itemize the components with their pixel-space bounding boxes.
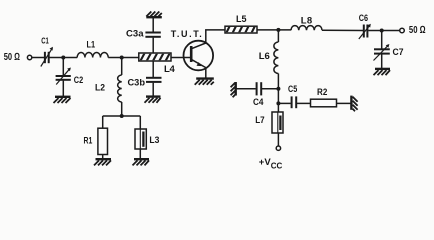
capacitor C4 xyxy=(257,82,262,95)
wire input to C1 xyxy=(32,57,44,59)
svg-text:C3b: C3b xyxy=(128,78,146,89)
wire collector up and right to L5 xyxy=(206,30,225,43)
ground (below C7) xyxy=(374,69,391,75)
inductor L6 (vertical) xyxy=(274,42,279,74)
ground (emitter) xyxy=(195,79,214,85)
svg-text:C3a: C3a xyxy=(126,29,144,40)
wire C1 to node A xyxy=(50,57,78,59)
wire C6 to output terminal xyxy=(368,30,400,32)
ground (below R1) xyxy=(94,159,111,165)
ground (right of R2) xyxy=(351,96,357,112)
wire node A down to C2 xyxy=(62,58,64,76)
wire C3b to ground xyxy=(152,83,154,96)
wire L4 to transistor base xyxy=(171,57,190,59)
capacitor C7 (variable) xyxy=(374,44,390,61)
wire ground to C4 xyxy=(236,88,256,90)
wire L1 to L4 xyxy=(108,57,139,59)
wire R1 to ground xyxy=(102,155,104,159)
ground (below C2) xyxy=(54,97,71,103)
wire emitter to ground xyxy=(205,68,207,78)
Vcc terminal xyxy=(276,146,280,150)
capacitor C5 xyxy=(292,96,297,108)
node A (C2 junction) xyxy=(61,56,65,60)
inductor L3 (slug-core choke) xyxy=(135,129,146,149)
ground (below C3b) xyxy=(145,97,161,103)
svg-text:L3: L3 xyxy=(149,135,159,146)
node E (C6/C7 junction) xyxy=(380,29,384,33)
wire C4 to node F xyxy=(262,88,278,90)
wire node E down to C7 xyxy=(381,31,383,49)
svg-text:+VCC: +VCC xyxy=(259,157,283,171)
ground (below L3) xyxy=(133,159,150,165)
wire L6 to node F xyxy=(277,74,279,104)
svg-text:L4: L4 xyxy=(164,64,176,75)
capacitor C3a xyxy=(145,33,160,37)
wire node G to C5 xyxy=(278,102,290,104)
svg-text:L5: L5 xyxy=(236,14,247,24)
wire L3 to ground xyxy=(139,149,141,159)
svg-text:C6: C6 xyxy=(359,13,368,23)
svg-text:T.U.T.: T.U.T. xyxy=(171,29,202,39)
inductor L8 xyxy=(291,26,322,31)
svg-text:50 Ω: 50 Ω xyxy=(4,51,20,63)
resistor R1 xyxy=(98,128,108,154)
wire node B down to L2 xyxy=(121,58,123,76)
wire C5 to R2 xyxy=(297,102,311,104)
capacitor C1 (variable) xyxy=(41,47,53,67)
svg-text:C7: C7 xyxy=(393,47,404,58)
wire L8 to C6 xyxy=(322,29,363,31)
wire bottom rail xyxy=(103,115,141,117)
wire C2 to ground xyxy=(62,81,64,97)
wire L7 to Vcc terminal xyxy=(277,133,279,146)
output terminal (50 ohm load) xyxy=(400,28,405,33)
wire R2 to ground xyxy=(337,102,351,104)
svg-text:C2: C2 xyxy=(74,75,83,86)
node F (C4 junction) xyxy=(276,87,280,91)
ground (left of C4) xyxy=(231,82,236,97)
svg-text:R2: R2 xyxy=(317,87,327,97)
inductor L7 (slug-core choke) xyxy=(272,112,283,133)
wire C7 to ground xyxy=(381,54,383,68)
input terminal (50 ohm source) xyxy=(27,55,31,59)
svg-text:L1: L1 xyxy=(87,40,96,50)
wire C3a to L4 top xyxy=(152,38,154,53)
node C (R1/L3 junction) xyxy=(120,114,124,118)
wire node G down to L7 xyxy=(277,103,279,112)
svg-text:L2: L2 xyxy=(95,82,105,93)
wire L4 bottom to C3b xyxy=(152,61,154,77)
inductor L1 xyxy=(77,52,108,57)
node G (C5/L7 junction) xyxy=(276,101,280,105)
svg-text:L6: L6 xyxy=(259,51,270,62)
svg-text:50 Ω: 50 Ω xyxy=(409,24,426,36)
svg-text:R1: R1 xyxy=(84,135,93,145)
capacitor C2 (variable) xyxy=(56,68,71,85)
node B (L1/L4/L2 junction) xyxy=(120,56,124,60)
capacitor C6 (variable) xyxy=(359,24,371,39)
inductor L2 (vertical) xyxy=(118,75,122,102)
stripline L4 (hatched box) xyxy=(139,51,171,64)
svg-text:L8: L8 xyxy=(301,16,313,27)
wire down to L3 xyxy=(139,116,141,129)
ground (above C3a, flipped) xyxy=(146,12,162,18)
wire ground to C3a xyxy=(152,17,154,32)
stripline L5 (hatched box) xyxy=(225,24,257,36)
wire node D down to L6 xyxy=(277,30,279,42)
capacitor C3b xyxy=(146,78,162,82)
node D (L5/L8/L6 junction) xyxy=(276,28,280,32)
wire down to R1 xyxy=(102,116,104,128)
svg-text:C4: C4 xyxy=(253,97,264,107)
svg-text:C1: C1 xyxy=(41,35,49,45)
transistor T.U.T. xyxy=(184,41,214,71)
wire L2 to bottom node xyxy=(121,102,123,116)
svg-text:C5: C5 xyxy=(288,84,297,94)
wire L5 to node D xyxy=(257,29,291,31)
resistor R2 xyxy=(311,99,337,107)
svg-text:L7: L7 xyxy=(255,115,264,126)
